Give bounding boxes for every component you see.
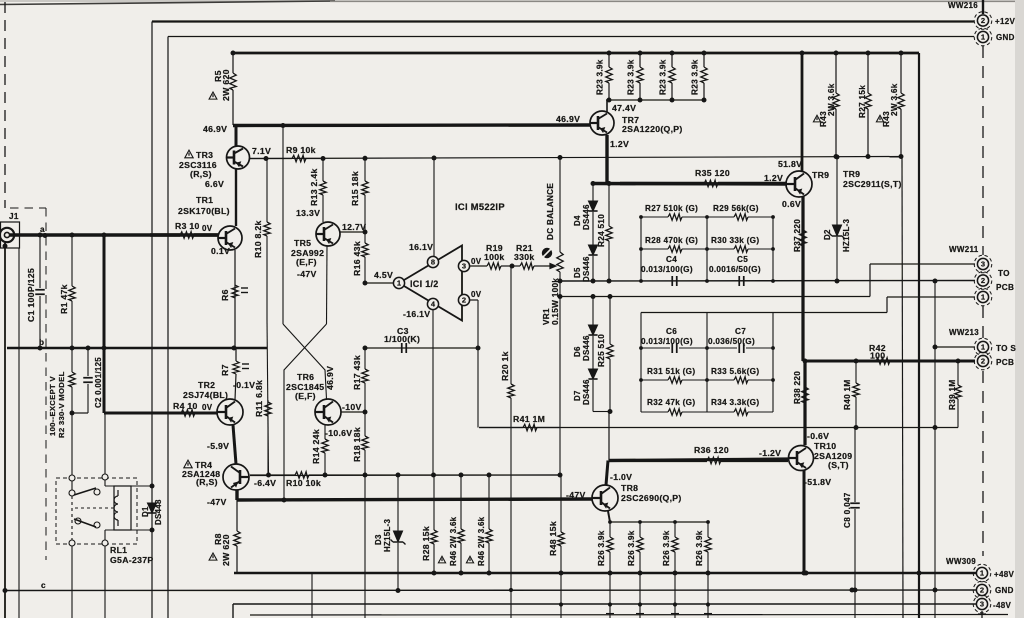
- junction: [771, 247, 775, 251]
- junction: [771, 279, 775, 283]
- wire TR9 emitter thick: [801, 196, 804, 361]
- wire thick input vertical: [103, 235, 106, 413]
- resistor R38 220 zigzag: [802, 387, 808, 403]
- resistor R26 3.9k #1: [607, 522, 613, 573]
- svg-text:DS446: DS446: [582, 379, 591, 405]
- op-amp pin 8: [427, 256, 438, 267]
- capacitor C5: [739, 276, 744, 286]
- wire dashed a-b-c line: [45, 208, 47, 560]
- transistor TR7: [590, 111, 614, 135]
- svg-text:2: 2: [981, 276, 985, 285]
- svg-text:2: 2: [981, 16, 985, 25]
- svg-text:0.6V: 0.6V: [782, 199, 801, 209]
- svg-text:J1: J1: [9, 212, 19, 221]
- junction: [607, 181, 612, 186]
- svg-text:R10 8.2k: R10 8.2k: [253, 220, 263, 258]
- svg-text:R35 120: R35 120: [695, 168, 730, 178]
- resistor R9 10k: [250, 155, 320, 161]
- junction: [487, 473, 492, 478]
- wire TR2 emitter to TR4: [233, 425, 236, 464]
- network box R27-R30/C4/C5: [641, 217, 773, 281]
- relay RL1 coil: [114, 486, 131, 530]
- junction: [639, 215, 643, 219]
- svg-text:-0.6V: -0.6V: [807, 431, 829, 441]
- resistor R24 510: [606, 184, 612, 282]
- junction: [705, 346, 709, 350]
- svg-text:100k: 100k: [484, 252, 505, 262]
- junction: [363, 230, 368, 235]
- svg-text:2SJ74(BL): 2SJ74(BL): [183, 390, 228, 400]
- transistor TR6: [315, 399, 341, 425]
- capacitor C8 net: [854, 428, 856, 503]
- svg-text:(R,S): (R,S): [196, 477, 218, 487]
- svg-text:c: c: [41, 581, 46, 590]
- svg-text:R23 3.9k: R23 3.9k: [691, 59, 700, 95]
- junction: [282, 498, 287, 503]
- junction: [899, 51, 904, 56]
- junction: [44, 234, 46, 236]
- resistor R40 1M: [853, 361, 859, 428]
- svg-text:-10V: -10V: [342, 402, 362, 412]
- connector pin 2: [974, 352, 992, 370]
- svg-text:TR9: TR9: [843, 169, 860, 179]
- resistor R6 (jumper): [232, 285, 238, 298]
- junction: [673, 520, 677, 524]
- diode D3 net: [397, 475, 399, 531]
- wire TR5 emitter: [340, 231, 365, 233]
- connector WW216 stub: [982, 0, 984, 14]
- svg-text:-0.1V: -0.1V: [233, 380, 255, 390]
- junction: [558, 294, 563, 299]
- wire ground reference rail (R41 line): [479, 427, 958, 429]
- svg-text:R27 510k (G): R27 510k (G): [645, 204, 698, 213]
- resistor R41 1M: [479, 424, 560, 430]
- wire left ground vertical: [4, 243, 6, 618]
- junction: [638, 98, 643, 103]
- resistor R11 6.8k: [265, 400, 271, 476]
- warning mark R43b: [876, 115, 883, 122]
- wire column to bottom section: [609, 573, 611, 618]
- junction: [363, 281, 368, 286]
- potentiometer VR1: [557, 158, 563, 476]
- svg-text:R29 56k(G): R29 56k(G): [713, 204, 759, 213]
- wire dashed left margin: [4, 2, 6, 208]
- diode D6: [588, 325, 597, 335]
- junction: [705, 279, 709, 283]
- junction: [706, 602, 710, 606]
- transistor TR8: [592, 485, 618, 511]
- junction: [835, 155, 840, 160]
- svg-text:1: 1: [981, 343, 985, 352]
- junction: [673, 602, 677, 606]
- svg-text:PCB: PCB: [996, 283, 1014, 292]
- diode D3: [391, 531, 406, 545]
- resistor R48 15k: [558, 475, 564, 573]
- svg-text:1: 1: [397, 279, 401, 288]
- junction: [591, 294, 596, 299]
- junction: [608, 520, 612, 524]
- wire dashed top of J1 area: [10, 207, 46, 209]
- junction: [591, 181, 596, 186]
- junction: [102, 346, 107, 351]
- diode D4 net: [592, 184, 594, 202]
- svg-text:TR3: TR3: [196, 150, 213, 160]
- wire pin4 down: [432, 310, 434, 476]
- svg-text:0V: 0V: [471, 257, 482, 266]
- junction: [396, 588, 401, 593]
- svg-text:0.15W 100k: 0.15W 100k: [551, 278, 560, 325]
- svg-text:(R,S): (R,S): [190, 169, 212, 179]
- wire TR4 base rail: [250, 474, 561, 477]
- svg-text:0.013/100(G): 0.013/100(G): [641, 265, 693, 274]
- wire column to bottom section: [639, 573, 641, 618]
- svg-text:HZ15L-3: HZ15L-3: [842, 218, 851, 252]
- wire dashed PCB boundary mid: [982, 306, 984, 338]
- resistor R10 8.2k: [264, 159, 270, 321]
- wire +12V rail: [152, 20, 974, 22]
- resistor R33 5.6k: [707, 377, 773, 383]
- wire bias rail vertical drop: [902, 157, 903, 618]
- resistor R30 33k: [707, 246, 773, 252]
- op-amp pin 3: [458, 260, 469, 271]
- resistor R5: [230, 53, 236, 125]
- svg-text:2W 3.6k: 2W 3.6k: [890, 83, 899, 116]
- svg-text:6.6V: 6.6V: [205, 179, 224, 189]
- junction: [86, 346, 91, 351]
- junction: [558, 279, 563, 284]
- junction: [638, 602, 642, 606]
- junction: [804, 571, 809, 576]
- svg-text:R38 220: R38 220: [793, 371, 802, 404]
- junction: [850, 588, 855, 593]
- resistor R23 3.9k #4: [701, 53, 707, 100]
- svg-text:D3: D3: [374, 534, 383, 545]
- svg-text:0V: 0V: [471, 290, 482, 299]
- junction: [854, 359, 859, 364]
- resistor R14 24k: [322, 425, 328, 476]
- resistor R35 120: [620, 180, 786, 186]
- warning mark R46b: [466, 556, 473, 563]
- svg-text:2: 2: [980, 586, 984, 595]
- svg-text:TR6: TR6: [297, 372, 314, 382]
- svg-text:R32 47k (G): R32 47k (G): [647, 398, 695, 407]
- junction: [266, 473, 271, 478]
- junction: [432, 156, 437, 161]
- svg-text:R26 3.9k: R26 3.9k: [627, 530, 636, 566]
- svg-text:-5.9V: -5.9V: [207, 441, 229, 451]
- connector pin 3: [973, 595, 991, 613]
- svg-text:+12V: +12V: [995, 17, 1015, 26]
- junction: [608, 602, 612, 606]
- wire column to bottom section: [674, 573, 676, 618]
- capacitor C8: [850, 503, 860, 508]
- wire R38 segment thick: [803, 361, 806, 445]
- warning mark R5: [209, 92, 217, 99]
- svg-text:R26 3.9k: R26 3.9k: [695, 530, 704, 566]
- junction: [917, 571, 922, 576]
- junction: [706, 520, 710, 524]
- wire C8 column extension: [854, 590, 856, 618]
- svg-text:1: 1: [981, 33, 985, 42]
- svg-text:46.9V: 46.9V: [556, 114, 580, 124]
- svg-text:TR9: TR9: [812, 170, 829, 180]
- wire +48V bottom thick rail: [234, 572, 976, 575]
- junction: [559, 571, 564, 576]
- resistor R15 18k: [362, 159, 368, 233]
- resistor R7 (jumper): [235, 348, 237, 361]
- svg-text:4.5V: 4.5V: [374, 270, 393, 280]
- svg-text:R9 10k: R9 10k: [286, 145, 316, 155]
- connector pin 2: [974, 272, 992, 290]
- svg-text:1: 1: [981, 293, 985, 302]
- diode D7 net: [592, 380, 594, 412]
- junction: [43, 233, 48, 238]
- wire R18 column extension: [364, 476, 366, 618]
- svg-text:46.9V: 46.9V: [203, 124, 227, 134]
- resistor R29 56k: [707, 214, 773, 220]
- svg-text:-47V: -47V: [566, 490, 586, 500]
- svg-text:TR5: TR5: [294, 238, 311, 248]
- svg-text:-47V: -47V: [207, 497, 227, 507]
- wire R2/C2 tie: [72, 412, 88, 414]
- junction: [639, 378, 643, 382]
- junction: [639, 346, 643, 350]
- resistor R19 100k: [470, 263, 513, 269]
- junction: [264, 156, 269, 161]
- wire bias rail (R9 line): [249, 157, 902, 159]
- capacitor C6: [672, 343, 677, 353]
- diode D7: [588, 369, 597, 379]
- junction: [607, 279, 612, 284]
- svg-text:R37 220: R37 220: [793, 219, 802, 252]
- wire 46.9V thick rail: [233, 123, 590, 127]
- wire bottom crossing 1: [311, 573, 313, 618]
- wire TR6 emitter: [341, 411, 365, 413]
- svg-text:R33 5.6k(G): R33 5.6k(G): [711, 367, 759, 376]
- svg-text:HZ15L-3: HZ15L-3: [383, 518, 392, 552]
- junction: [476, 346, 481, 351]
- junction: [866, 154, 871, 159]
- wire pin1 lead: [365, 282, 394, 284]
- wire C4/C5 rail to WW211-2: [561, 280, 975, 283]
- junction: [363, 156, 368, 161]
- junction: [70, 233, 75, 238]
- junction: [705, 247, 709, 251]
- svg-text:1: 1: [980, 569, 984, 578]
- wire coil to D1 top: [131, 485, 152, 487]
- junction: [70, 411, 75, 416]
- svg-text:-47V: -47V: [297, 269, 317, 279]
- junction: [607, 98, 612, 103]
- resistor R28 15k: [431, 475, 437, 573]
- wire C3 rail: [365, 347, 478, 349]
- wiper arrow VR1: [544, 264, 556, 269]
- junction: [459, 571, 464, 576]
- scan page top edge: [0, 0, 1024, 2]
- svg-text:C6: C6: [666, 327, 677, 336]
- resistor R21 330k: [512, 263, 544, 269]
- svg-text:DS448: DS448: [154, 499, 163, 525]
- wire WW211-1 lead: [887, 296, 975, 298]
- junction: [38, 346, 43, 351]
- junction: [705, 378, 709, 382]
- svg-text:C7: C7: [735, 327, 746, 336]
- junction: [509, 588, 513, 592]
- svg-text:TO S: TO S: [996, 344, 1016, 353]
- transistor TR3: [227, 146, 250, 169]
- capacitor C2: [83, 378, 93, 383]
- jumper marks R6: [241, 288, 248, 293]
- svg-text:D5: D5: [573, 267, 582, 278]
- svg-text:R20 1k: R20 1k: [500, 351, 510, 381]
- diode D4: [588, 201, 597, 211]
- wire TR1 source down: [234, 250, 236, 348]
- svg-text:R23 3.9k: R23 3.9k: [596, 59, 605, 95]
- resistor R34 3.3k: [707, 409, 773, 415]
- junction: [558, 473, 563, 478]
- wire R36 thick rail: [609, 459, 788, 461]
- svg-text:R17 43k: R17 43k: [352, 355, 362, 390]
- svg-text:51.8V: 51.8V: [778, 159, 802, 169]
- svg-text:R1 47k: R1 47k: [59, 284, 69, 314]
- capacitor C6 wires: [641, 347, 670, 349]
- junction: [702, 51, 707, 56]
- wire pin2 net down: [477, 300, 479, 428]
- wire pin8 to bias rail: [433, 158, 435, 257]
- junction: [803, 359, 808, 364]
- junction: [834, 51, 839, 56]
- wire box2 top rail: [641, 312, 887, 314]
- svg-text:2W 3.6k: 2W 3.6k: [827, 83, 836, 116]
- capacitor C1: [35, 290, 45, 295]
- op-amp pin 2: [458, 294, 469, 305]
- junction: [706, 571, 711, 576]
- svg-text:WW216: WW216: [948, 1, 978, 10]
- svg-text:R23 3.9k: R23 3.9k: [627, 59, 636, 95]
- svg-text:WW211: WW211: [949, 245, 979, 254]
- resistor R39 1M: [955, 361, 961, 428]
- wire TR9 collector: [801, 53, 804, 172]
- diode D6 net: [592, 297, 594, 326]
- connector pin 2: [973, 581, 991, 599]
- junction: [607, 51, 612, 56]
- wire +48V thick top rail: [233, 52, 919, 55]
- transistor TR4: [223, 464, 249, 490]
- wire relay lower left: [71, 544, 73, 618]
- svg-text:0.036/50(G): 0.036/50(G): [708, 337, 755, 346]
- junction: [638, 571, 643, 576]
- svg-text:2SC2690(Q,P): 2SC2690(Q,P): [621, 493, 682, 503]
- transistor TR2: [217, 399, 243, 425]
- junction: [638, 51, 643, 56]
- svg-text:R36 120: R36 120: [694, 445, 729, 455]
- scan page right edge band: [1015, 0, 1024, 618]
- svg-text:TR8: TR8: [621, 483, 638, 493]
- capacitor C4: [672, 276, 677, 286]
- diode D1: [147, 503, 156, 513]
- resistor R20 1k: [508, 266, 514, 618]
- junction: [853, 588, 858, 593]
- junction: [933, 425, 938, 430]
- wire rail to WW211-3: [561, 296, 870, 298]
- svg-text:+48V: +48V: [994, 570, 1014, 579]
- svg-text:C5: C5: [737, 255, 748, 264]
- transistor TR10: [789, 446, 814, 471]
- wire TR3 collector stub: [235, 126, 238, 147]
- diode D5 net: [592, 256, 594, 281]
- svg-text:ICI M522IP: ICI M522IP: [455, 201, 505, 212]
- junction: [608, 571, 613, 576]
- resistor R16 43k: [362, 232, 368, 283]
- resistor R1: [69, 235, 75, 348]
- svg-text:R14 24k: R14 24k: [311, 429, 321, 464]
- DC balance pot symbol: [542, 248, 552, 258]
- resistor R26 3.9k #3: [672, 522, 678, 573]
- capacitor C5 wires: [707, 280, 737, 282]
- wire WW ground net vertical: [934, 281, 936, 590]
- junction: [800, 51, 805, 56]
- capacitor C1 net: [39, 235, 41, 288]
- warning mark TR4: [184, 460, 192, 468]
- diode D2: [830, 225, 845, 239]
- wire coil to D1 bottom: [131, 529, 152, 531]
- svg-text:2SC2911(S,T): 2SC2911(S,T): [843, 179, 902, 189]
- svg-text:1.2V: 1.2V: [764, 173, 783, 183]
- svg-text:12.7V: 12.7V: [342, 222, 366, 232]
- svg-text:PCB: PCB: [996, 358, 1014, 367]
- relay RL1 dashed outline: [56, 478, 137, 544]
- svg-text:0.013/100(G): 0.013/100(G): [641, 337, 693, 346]
- svg-text:R28 470k (G): R28 470k (G): [645, 236, 698, 245]
- svg-text:R10 10k: R10 10k: [286, 478, 321, 488]
- junction: [956, 359, 961, 364]
- svg-text:2SA1220(Q,P): 2SA1220(Q,P): [622, 124, 683, 134]
- junction: [639, 279, 643, 283]
- junction: [673, 571, 678, 576]
- svg-text:1/100(K): 1/100(K): [384, 334, 420, 344]
- svg-text:C8 0.047: C8 0.047: [843, 492, 852, 528]
- svg-text:RL1: RL1: [110, 545, 127, 555]
- wire b-rail: [7, 347, 267, 349]
- svg-text:(E,F): (E,F): [296, 257, 317, 267]
- resistor R2: [69, 348, 75, 478]
- connector pin 1: [974, 338, 992, 356]
- svg-text:R11 6.8k: R11 6.8k: [254, 380, 264, 417]
- wire TR7 emitter thick: [605, 135, 608, 184]
- junction: [150, 528, 155, 533]
- svg-text:R15 18k: R15 18k: [350, 171, 360, 206]
- junction: [459, 473, 464, 478]
- resistor R28 470k: [641, 246, 707, 252]
- wire crossover X: [283, 324, 327, 500]
- resistor R13 2.4k: [320, 159, 326, 223]
- transistor TR5: [316, 222, 340, 246]
- junction: [232, 346, 237, 351]
- resistor R31 51k: [641, 377, 707, 383]
- svg-text:R2 330-V MODEL: R2 330-V MODEL: [57, 371, 66, 438]
- svg-text:R46 2W 3.6k: R46 2W 3.6k: [449, 516, 458, 566]
- capacitor C2 net: [87, 348, 89, 376]
- junction: [510, 264, 515, 269]
- connector J1 input jack: [0, 222, 20, 248]
- wire dashed PCB boundary upper: [982, 46, 984, 255]
- junction: [102, 233, 107, 238]
- svg-text:DC BALANCE: DC BALANCE: [546, 183, 555, 240]
- svg-text:2W 620: 2W 620: [221, 534, 231, 566]
- svg-text:(S,T): (S,T): [828, 460, 849, 470]
- junction: [431, 473, 436, 478]
- svg-text:0V: 0V: [202, 403, 213, 412]
